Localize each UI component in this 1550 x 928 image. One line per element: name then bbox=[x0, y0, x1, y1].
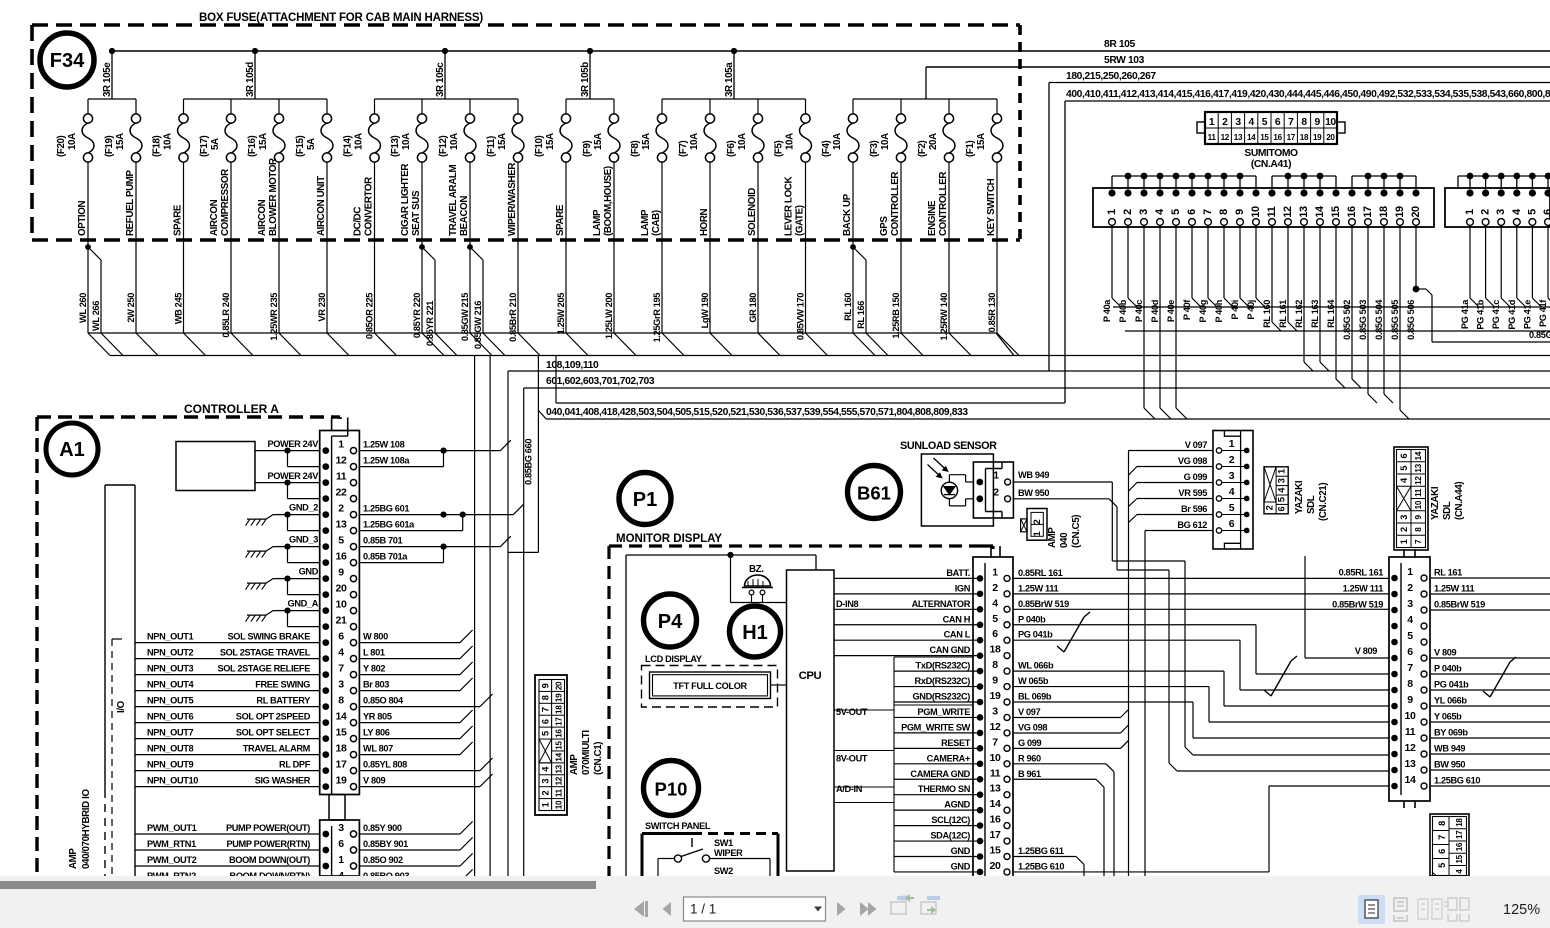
svg-text:RL 166: RL 166 bbox=[856, 301, 866, 329]
svg-text:12: 12 bbox=[1221, 133, 1230, 142]
wire vertical rail B bbox=[489, 356, 491, 877]
fuse F17 5A bbox=[230, 99, 232, 114]
svg-text:WL 266: WL 266 bbox=[91, 301, 101, 331]
pin 18 CN.A41 bbox=[1380, 189, 1387, 196]
pin 1 monitor BATT. bbox=[834, 577, 980, 579]
pin 7 monitor RESET bbox=[894, 747, 980, 749]
svg-text:8R 105: 8R 105 bbox=[1104, 39, 1135, 50]
pin 6 monitor CAN L bbox=[834, 639, 980, 641]
pin 18 controller A bbox=[322, 751, 329, 758]
wire 1.25WR 235 bbox=[278, 240, 280, 333]
svg-text:15A: 15A bbox=[497, 133, 508, 150]
svg-text:17: 17 bbox=[1362, 206, 1374, 218]
svg-text:0.85G 503: 0.85G 503 bbox=[1358, 300, 1368, 340]
svg-text:0.85YL 808: 0.85YL 808 bbox=[363, 759, 407, 769]
svg-text:(GATE): (GATE) bbox=[795, 205, 806, 236]
pin 3 14pin connector bbox=[1391, 607, 1398, 614]
photodiode B61 bbox=[941, 482, 957, 498]
fuse group bar bbox=[88, 98, 136, 100]
svg-text:1.25RB 150: 1.25RB 150 bbox=[891, 293, 901, 339]
svg-text:7: 7 bbox=[1407, 662, 1413, 674]
svg-text:A/D-IN: A/D-IN bbox=[836, 784, 863, 794]
svg-text:6: 6 bbox=[1229, 518, 1235, 530]
pin 2 14pin connector bbox=[1391, 591, 1398, 598]
bracket pins 16-20 bbox=[1352, 175, 1416, 177]
connector YAZAKI SDL (CN.A44) face bbox=[1394, 447, 1428, 550]
bracket pins 1-10 bbox=[1112, 175, 1256, 177]
pin 21 controller A bbox=[322, 623, 329, 630]
svg-text:AMP: AMP bbox=[1047, 527, 1058, 548]
fuse group bar bbox=[566, 98, 614, 100]
svg-text:1: 1 bbox=[1464, 209, 1476, 215]
monitor label boxes bbox=[893, 657, 895, 872]
svg-text:3: 3 bbox=[1495, 209, 1507, 215]
wire 5RW 103 bbox=[926, 66, 1550, 68]
svg-text:5: 5 bbox=[1399, 466, 1409, 471]
svg-text:13: 13 bbox=[1405, 758, 1416, 770]
svg-text:H1: H1 bbox=[742, 622, 768, 644]
wire RL 166 branch bbox=[850, 244, 856, 250]
svg-text:RL 164: RL 164 bbox=[1326, 299, 1336, 328]
wire 0.85LR 240 bbox=[230, 240, 232, 333]
svg-text:1: 1 bbox=[1209, 117, 1215, 128]
svg-text:13: 13 bbox=[1234, 133, 1243, 142]
pin 12 14pin connector bbox=[1391, 751, 1398, 758]
wire 0.85OR 225 bbox=[374, 240, 376, 333]
pin 4 CN.A41 bbox=[1156, 189, 1163, 196]
wire WB 245 bbox=[183, 240, 185, 333]
wire NPN_OUT8 TRAVEL ALARM bbox=[135, 754, 320, 756]
svg-text:REFUEL PUMP: REFUEL PUMP bbox=[125, 169, 136, 236]
svg-text:3R 105a: 3R 105a bbox=[724, 62, 735, 97]
svg-text:CAN GND: CAN GND bbox=[930, 645, 971, 655]
svg-text:16: 16 bbox=[555, 729, 564, 738]
svg-text:BACK UP: BACK UP bbox=[842, 193, 853, 236]
svg-text:G 099: G 099 bbox=[1184, 472, 1208, 482]
wire B 961 link bbox=[1013, 778, 1096, 780]
svg-text:1.25W 111: 1.25W 111 bbox=[1018, 583, 1059, 593]
svg-text:10: 10 bbox=[1414, 500, 1423, 509]
svg-text:SOL OPT SELECT: SOL OPT SELECT bbox=[236, 728, 311, 738]
svg-text:CAN H: CAN H bbox=[943, 614, 971, 624]
svg-text:VG 098: VG 098 bbox=[1018, 722, 1047, 732]
svg-text:11: 11 bbox=[555, 788, 564, 797]
svg-text:3: 3 bbox=[1235, 117, 1241, 128]
pin 12 CN.A41 bbox=[1284, 189, 1291, 196]
svg-text:BW 950: BW 950 bbox=[1434, 760, 1465, 770]
svg-text:SPARE: SPARE bbox=[555, 204, 566, 236]
icon two page continuous bbox=[1444, 898, 1469, 921]
svg-text:10A: 10A bbox=[163, 133, 174, 150]
svg-text:CPU: CPU bbox=[799, 670, 822, 682]
svg-text:14: 14 bbox=[1247, 133, 1256, 142]
svg-text:V 097: V 097 bbox=[1018, 707, 1041, 717]
svg-text:6: 6 bbox=[992, 628, 998, 640]
fuse F5 10A bbox=[805, 99, 807, 114]
svg-text:1: 1 bbox=[1277, 469, 1287, 474]
svg-text:0.85YR 220: 0.85YR 220 bbox=[412, 293, 422, 338]
svg-text:PG 41d: PG 41d bbox=[1507, 299, 1517, 329]
svg-text:3: 3 bbox=[338, 678, 344, 690]
svg-text:WL 807: WL 807 bbox=[363, 743, 393, 753]
svg-text:TRAVEL ARALM: TRAVEL ARALM bbox=[448, 165, 459, 236]
svg-text:0.85YR 221: 0.85YR 221 bbox=[425, 301, 435, 346]
svg-text:12: 12 bbox=[555, 776, 564, 785]
pin 14 monitor AGND bbox=[894, 809, 980, 811]
svg-text:V 809: V 809 bbox=[1434, 648, 1457, 658]
wire PWM_RTN2 BOOM DOWN(RTN) bbox=[135, 881, 320, 883]
svg-text:2: 2 bbox=[1222, 117, 1228, 128]
svg-text:(CN.C5): (CN.C5) bbox=[1071, 515, 1082, 548]
svg-text:(F16): (F16) bbox=[247, 135, 258, 157]
wire 0.85GW 216 branch bbox=[467, 244, 473, 250]
svg-text:P 40d: P 40d bbox=[1150, 299, 1160, 322]
wire PG 041b link bbox=[1013, 639, 1240, 641]
svg-text:7: 7 bbox=[1288, 117, 1294, 128]
svg-text:1: 1 bbox=[338, 854, 344, 866]
svg-text:10A: 10A bbox=[449, 133, 460, 150]
svg-text:20: 20 bbox=[990, 860, 1001, 872]
pin 13 monitor THERMO SN bbox=[894, 794, 980, 796]
svg-text:NPN_OUT10: NPN_OUT10 bbox=[147, 776, 198, 786]
svg-text:3: 3 bbox=[1277, 478, 1287, 483]
node 3R 105c tap bbox=[442, 48, 448, 54]
svg-text:8: 8 bbox=[1437, 821, 1447, 826]
svg-text:16: 16 bbox=[1455, 842, 1464, 851]
node 3R 105a tap bbox=[731, 48, 737, 54]
svg-text:PGM_WRITE: PGM_WRITE bbox=[917, 707, 970, 717]
svg-text:GND(RS232C): GND(RS232C) bbox=[912, 692, 970, 702]
svg-text:SOL OPT 2SPEED: SOL OPT 2SPEED bbox=[236, 712, 311, 722]
pin 10 monitor CAMERA+ bbox=[894, 763, 980, 765]
wire bus vertical x1128 bbox=[1128, 710, 1130, 877]
icon insert page before bbox=[891, 894, 914, 914]
wire VR 595 bbox=[1137, 498, 1213, 500]
wire 1.25RB 150 bbox=[900, 240, 902, 333]
fuse F2 20A bbox=[948, 99, 950, 114]
svg-text:P 40c: P 40c bbox=[1134, 300, 1144, 322]
svg-text:(F10): (F10) bbox=[534, 135, 545, 157]
svg-text:0.85BG 660: 0.85BG 660 bbox=[524, 439, 534, 485]
svg-text:3R 105d: 3R 105d bbox=[245, 62, 256, 97]
svg-text:12: 12 bbox=[990, 721, 1001, 733]
svg-text:10A: 10A bbox=[689, 133, 700, 150]
svg-text:18: 18 bbox=[990, 644, 1001, 656]
wire BL 069b link bbox=[1013, 701, 1193, 703]
monitor P1 ref circle bbox=[619, 473, 671, 525]
svg-text:GND_3: GND_3 bbox=[289, 535, 318, 545]
svg-text:0.85BY 901: 0.85BY 901 bbox=[363, 839, 408, 849]
svg-text:19: 19 bbox=[1394, 206, 1406, 218]
svg-text:(CN.C21): (CN.C21) bbox=[1318, 483, 1329, 521]
svg-text:SOLENOID: SOLENOID bbox=[747, 188, 758, 236]
svg-text:14: 14 bbox=[555, 752, 564, 761]
svg-text:ENGINE: ENGINE bbox=[927, 200, 938, 236]
wire 0.85YR 221 branch bbox=[419, 244, 425, 250]
svg-text:PWM_OUT2: PWM_OUT2 bbox=[147, 855, 197, 865]
svg-text:4: 4 bbox=[1407, 614, 1413, 626]
svg-text:IGN: IGN bbox=[955, 583, 971, 593]
svg-text:13: 13 bbox=[1298, 206, 1310, 218]
pin 3 controller A bbox=[322, 687, 329, 694]
pin 10 14pin connector bbox=[1391, 719, 1398, 726]
svg-text:WB 949: WB 949 bbox=[1018, 470, 1049, 480]
fuse F6 10A bbox=[757, 99, 759, 114]
svg-text:5: 5 bbox=[541, 731, 551, 736]
connector AMP 040 (CN.C5) face bbox=[1021, 519, 1027, 532]
wire bus 180,215,250,260,267 bbox=[1049, 82, 1550, 84]
svg-text:POWER 24V: POWER 24V bbox=[267, 471, 319, 481]
pin 9 14pin connector bbox=[1391, 703, 1398, 710]
pin 15 CN.A41 bbox=[1332, 189, 1339, 196]
svg-text:10: 10 bbox=[336, 598, 347, 610]
wire VR 230 bbox=[326, 240, 328, 333]
wire 5RW 103 tap bbox=[925, 67, 927, 99]
svg-text:Y 802: Y 802 bbox=[363, 663, 385, 673]
svg-text:CONTROLLER: CONTROLLER bbox=[938, 172, 949, 236]
svg-text:12: 12 bbox=[1282, 206, 1294, 218]
svg-text:2: 2 bbox=[1407, 582, 1413, 594]
svg-text:15: 15 bbox=[1330, 206, 1342, 218]
svg-text:16: 16 bbox=[990, 814, 1001, 826]
svg-text:0.85OR 225: 0.85OR 225 bbox=[365, 293, 375, 339]
svg-text:125%: 125% bbox=[1503, 902, 1540, 918]
svg-text:0.85Y 900: 0.85Y 900 bbox=[363, 823, 402, 833]
pin 2 CN.A41 bbox=[1124, 189, 1131, 196]
svg-text:5: 5 bbox=[1262, 117, 1268, 128]
wire NPN_OUT1 SOL SWING BRAKE bbox=[135, 642, 320, 644]
svg-text:(CN.A44): (CN.A44) bbox=[1454, 482, 1465, 520]
svg-text:20A: 20A bbox=[928, 133, 939, 150]
pin 5 monitor CAN H bbox=[834, 624, 980, 626]
pin 10 CN.A41 bbox=[1252, 189, 1259, 196]
svg-text:3: 3 bbox=[338, 822, 344, 834]
pin 10 controller A bbox=[322, 607, 329, 614]
icon next page bbox=[837, 902, 846, 916]
svg-text:GND: GND bbox=[951, 846, 971, 856]
svg-text:5A: 5A bbox=[306, 138, 317, 150]
svg-text:GR 180: GR 180 bbox=[748, 293, 758, 323]
svg-text:1: 1 bbox=[993, 470, 999, 482]
svg-text:GND: GND bbox=[951, 861, 971, 871]
svg-text:070MIULTI: 070MIULTI bbox=[581, 730, 592, 775]
pin 18 monitor CAN GND bbox=[834, 655, 980, 657]
svg-text:CIGAR LIGHTER: CIGAR LIGHTER bbox=[400, 164, 411, 236]
svg-text:12: 12 bbox=[1405, 742, 1416, 754]
svg-text:L 801: L 801 bbox=[363, 647, 385, 657]
monitor P10 ref circle bbox=[644, 761, 699, 816]
svg-text:PG 41f: PG 41f bbox=[1538, 299, 1548, 327]
svg-text:22: 22 bbox=[336, 486, 347, 498]
svg-text:5RW 103: 5RW 103 bbox=[1104, 55, 1145, 66]
wire R 960 link bbox=[1013, 763, 1106, 765]
svg-text:1.25W 108: 1.25W 108 bbox=[363, 439, 405, 449]
pin 9 controller A bbox=[322, 575, 329, 582]
svg-text:18: 18 bbox=[1455, 818, 1464, 827]
svg-text:RL 163: RL 163 bbox=[1310, 300, 1320, 328]
svg-text:GND_2: GND_2 bbox=[289, 503, 318, 513]
svg-text:18: 18 bbox=[1300, 133, 1309, 142]
svg-text:15: 15 bbox=[1260, 133, 1269, 142]
controller A dashed box bbox=[37, 415, 334, 418]
pin 20 monitor GND bbox=[894, 871, 980, 873]
svg-text:6: 6 bbox=[1407, 646, 1413, 658]
wire NPN_OUT2 SOL 2STAGE TRAVEL bbox=[135, 658, 320, 660]
svg-text:6: 6 bbox=[1186, 209, 1198, 215]
svg-text:2W 250: 2W 250 bbox=[126, 293, 136, 323]
svg-text:I/O: I/O bbox=[116, 700, 127, 713]
icon insert page after bbox=[921, 896, 940, 914]
svg-text:0.85LR 240: 0.85LR 240 bbox=[221, 293, 231, 338]
svg-text:RL 162: RL 162 bbox=[1294, 300, 1304, 328]
wire PWM_RTN1 PUMP POWER(RTN) bbox=[135, 849, 320, 851]
svg-text:2: 2 bbox=[1399, 527, 1409, 532]
pin 2 controller A bbox=[322, 511, 329, 518]
icon previous page bbox=[663, 902, 672, 916]
svg-text:1.25W 205: 1.25W 205 bbox=[556, 293, 566, 335]
svg-text:5: 5 bbox=[1437, 863, 1447, 868]
svg-text:18: 18 bbox=[555, 705, 564, 714]
light arrows bbox=[928, 465, 942, 478]
svg-text:0.85BrW 519: 0.85BrW 519 bbox=[1018, 599, 1069, 609]
svg-text:YAZAKI: YAZAKI bbox=[1430, 486, 1441, 520]
svg-text:POWER 24V: POWER 24V bbox=[267, 439, 319, 449]
wire NPN_OUT4 FREE SWING bbox=[135, 690, 320, 692]
svg-text:18: 18 bbox=[336, 742, 347, 754]
fuse F18 10A bbox=[183, 99, 185, 114]
svg-text:(F4): (F4) bbox=[821, 140, 832, 157]
svg-text:15A: 15A bbox=[593, 133, 604, 150]
pin 1 14pin connector bbox=[1391, 575, 1398, 582]
wire 1.25GrR 195 bbox=[661, 240, 663, 333]
svg-text:P 040b: P 040b bbox=[1018, 614, 1046, 624]
pin 6 14pin connector bbox=[1391, 655, 1398, 662]
wire 1.25W 205 bbox=[565, 240, 567, 333]
svg-text:PUMP POWER(RTN): PUMP POWER(RTN) bbox=[226, 839, 310, 849]
svg-text:9: 9 bbox=[992, 675, 998, 687]
svg-text:0.85BrW 519: 0.85BrW 519 bbox=[1332, 600, 1383, 610]
svg-text:2: 2 bbox=[993, 486, 999, 498]
pin 8 controller A bbox=[322, 703, 329, 710]
svg-text:3: 3 bbox=[1229, 470, 1235, 482]
svg-text:PWM_OUT1: PWM_OUT1 bbox=[147, 823, 197, 833]
svg-text:(F17): (F17) bbox=[199, 135, 210, 157]
wire 0.85BrR 210 bbox=[517, 240, 519, 333]
connector 14pin block bbox=[1403, 549, 1405, 557]
svg-text:400,410,411,412,413,414,415,41: 400,410,411,412,413,414,415,416,417,419,… bbox=[1066, 89, 1550, 100]
svg-text:BEACON: BEACON bbox=[459, 196, 470, 236]
svg-text:4: 4 bbox=[1154, 209, 1166, 215]
pin 3 CN.A41 bbox=[1140, 189, 1147, 196]
svg-text:W 800: W 800 bbox=[363, 631, 388, 641]
pin 12 monitor PGM_WRITE SW bbox=[894, 732, 980, 734]
svg-text:PUMP POWER(OUT): PUMP POWER(OUT) bbox=[226, 823, 310, 833]
wire 0.85VW 170 bbox=[805, 240, 807, 333]
svg-text:0.85G 505: 0.85G 505 bbox=[1390, 300, 1400, 340]
svg-text:15A: 15A bbox=[976, 133, 987, 150]
svg-text:SOL 2STAGE RELIEFE: SOL 2STAGE RELIEFE bbox=[217, 664, 310, 674]
svg-text:20: 20 bbox=[336, 582, 347, 594]
svg-text:RL BATTERY: RL BATTERY bbox=[256, 696, 310, 706]
wire NPN_OUT3 SOL 2STAGE RELIEFE bbox=[135, 674, 320, 676]
svg-text:1.25BG 610: 1.25BG 610 bbox=[1434, 776, 1480, 786]
node 3R 105b tap bbox=[587, 48, 593, 54]
svg-text:8: 8 bbox=[1218, 209, 1230, 215]
svg-text:(F14): (F14) bbox=[343, 135, 354, 157]
svg-text:3: 3 bbox=[1407, 598, 1413, 610]
svg-text:BL 069b: BL 069b bbox=[1018, 692, 1052, 702]
svg-text:3: 3 bbox=[992, 705, 998, 717]
svg-text:7: 7 bbox=[1414, 539, 1423, 544]
svg-text:(F9): (F9) bbox=[582, 140, 593, 157]
svg-text:1: 1 bbox=[541, 802, 551, 807]
scrollbar thumb bbox=[0, 881, 596, 889]
svg-text:1.25W 108a: 1.25W 108a bbox=[363, 455, 410, 465]
svg-text:11: 11 bbox=[1208, 133, 1217, 142]
controller connector tab bbox=[331, 418, 333, 431]
svg-text:SOL SWING BRAKE: SOL SWING BRAKE bbox=[227, 632, 310, 642]
pin 17 CN.A41 bbox=[1364, 189, 1371, 196]
svg-text:12: 12 bbox=[1414, 476, 1423, 485]
svg-text:9: 9 bbox=[338, 566, 344, 578]
svg-text:NPN_OUT6: NPN_OUT6 bbox=[147, 712, 194, 722]
svg-text:0.85B 701: 0.85B 701 bbox=[363, 535, 403, 545]
svg-text:1: 1 bbox=[1399, 539, 1409, 544]
svg-text:F34: F34 bbox=[50, 50, 85, 72]
svg-text:0.85BrR 210: 0.85BrR 210 bbox=[508, 293, 518, 342]
svg-text:YL 066b: YL 066b bbox=[1434, 696, 1467, 706]
fuse F3 10A bbox=[900, 99, 902, 114]
svg-text:19: 19 bbox=[990, 690, 1001, 702]
svg-text:4: 4 bbox=[541, 766, 551, 772]
svg-text:P 40a: P 40a bbox=[1102, 299, 1112, 322]
pin 1 controller PWM bbox=[322, 863, 329, 870]
svg-text:WB 949: WB 949 bbox=[1434, 744, 1465, 754]
wire 0.85GW 215 bbox=[469, 240, 471, 333]
wire RL 160 bbox=[852, 240, 854, 333]
pin 9 monitor RxD(RS232C) bbox=[894, 686, 980, 688]
svg-text:18: 18 bbox=[1378, 206, 1390, 218]
pin 6 CN.C21 BG 612 bbox=[1216, 530, 1244, 532]
svg-text:AMP: AMP bbox=[569, 754, 580, 775]
controller A1 ref circle bbox=[46, 423, 98, 475]
wire Br 596 bbox=[1137, 514, 1213, 516]
svg-text:PG 41b: PG 41b bbox=[1476, 299, 1486, 329]
pin 14 controller A bbox=[322, 719, 329, 726]
wire PWM_OUT1 PUMP POWER(OUT) bbox=[135, 833, 320, 835]
svg-text:Br 803: Br 803 bbox=[363, 679, 389, 689]
wire bus 400,410,411,412... list bbox=[1065, 100, 1550, 102]
svg-text:HORN: HORN bbox=[699, 208, 710, 236]
svg-text:1 / 1: 1 / 1 bbox=[690, 902, 716, 917]
svg-text:10A: 10A bbox=[67, 133, 78, 150]
svg-text:YAZAKI: YAZAKI bbox=[1294, 480, 1305, 514]
wire 0.85R 130 bbox=[996, 240, 998, 333]
svg-text:10: 10 bbox=[1250, 206, 1262, 218]
svg-text:SWITCH PANEL: SWITCH PANEL bbox=[645, 821, 711, 831]
sensor B61 ref circle bbox=[848, 466, 901, 519]
svg-text:4: 4 bbox=[1249, 117, 1255, 128]
monitor inner rail bbox=[626, 554, 816, 556]
svg-text:G 099: G 099 bbox=[1018, 738, 1042, 748]
svg-text:7: 7 bbox=[338, 662, 344, 674]
svg-text:GND_A: GND_A bbox=[288, 599, 319, 609]
svg-text:1: 1 bbox=[338, 438, 344, 450]
svg-text:6: 6 bbox=[541, 719, 551, 724]
svg-text:FREE SWING: FREE SWING bbox=[255, 680, 310, 690]
svg-text:(F13): (F13) bbox=[390, 135, 401, 157]
connector CN.A41 main block bbox=[1093, 188, 1434, 227]
